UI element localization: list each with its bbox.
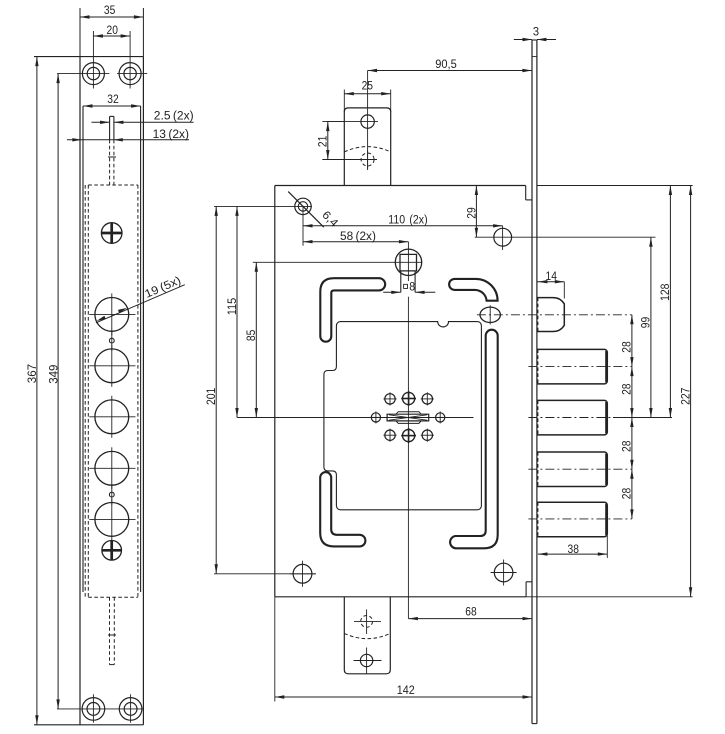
case inner rect (left view) — [83, 106, 141, 592]
top mounting tab — [344, 108, 390, 186]
dim 35 — [80, 5, 143, 19]
dim 99 — [641, 237, 653, 417]
svg-text:28: 28 — [622, 384, 634, 395]
dim 21 — [317, 122, 344, 160]
phillips screw bottom (left view) — [102, 541, 122, 561]
extension line bottom right — [526, 596, 693, 598]
svg-text:35: 35 — [104, 5, 115, 17]
spindle hub circle — [395, 249, 421, 275]
svg-text:115: 115 — [227, 298, 239, 315]
dim 201 — [206, 206, 316, 573]
inner case outline — [324, 322, 482, 510]
svg-text:201: 201 — [206, 388, 218, 405]
svg-text:85: 85 — [246, 330, 258, 341]
svg-text:2.5 (2x): 2.5 (2x) — [154, 110, 194, 122]
bore hole circle 5 (19mm) — [89, 498, 135, 540]
svg-text:28: 28 — [622, 341, 634, 352]
lock body outline — [275, 186, 526, 597]
bore hole circle 2 (19mm) — [89, 345, 135, 387]
bolt 3 side view — [528, 452, 632, 487]
bottom mounting tab — [344, 597, 390, 674]
svg-text:110 (2x): 110 (2x) — [388, 214, 427, 226]
dim 142 — [275, 597, 532, 702]
nut lever bar — [387, 412, 429, 424]
svg-text:28: 28 — [622, 488, 634, 499]
dim 58 (2x) — [303, 231, 408, 243]
body top notch at faceplate — [526, 186, 532, 200]
body center vertical line — [407, 242, 409, 619]
hook slot bottom-right (long) — [450, 330, 498, 549]
spindle slot hidden lines — [108, 140, 116, 185]
bolt 1 side view — [528, 349, 632, 384]
svg-text:13 (2x): 13 (2x) — [153, 129, 190, 141]
dim 32 — [83, 94, 141, 108]
dim 20 — [93, 25, 130, 38]
dim 13 (2x) — [67, 129, 189, 141]
tab hole top — [327, 115, 379, 128]
extension line top right — [537, 185, 693, 187]
label 19 (5x) leader — [96, 275, 185, 323]
dim 3 — [514, 27, 556, 42]
tab hole bottom (hidden) — [327, 150, 378, 168]
bottom tab dashed edge — [344, 633, 390, 638]
svg-text:367: 367 — [27, 364, 39, 383]
svg-text:99: 99 — [641, 317, 653, 328]
svg-text:14: 14 — [546, 271, 558, 283]
bore hole circle 1 (19mm) — [89, 293, 135, 335]
hook slot top-right — [449, 279, 498, 301]
screw hole bottom-right — [119, 698, 142, 721]
dim 90,5 — [368, 59, 532, 72]
mount hole top-right — [475, 226, 656, 250]
mount hole bottom-right — [491, 560, 517, 586]
dim 28 chain — [622, 315, 634, 519]
svg-text:25: 25 — [362, 80, 373, 92]
svg-text:38: 38 — [568, 544, 579, 556]
hook slot bottom-left — [320, 472, 365, 546]
bottom tab hole top (hidden) — [354, 610, 381, 635]
cylinder screw ellipse — [480, 305, 500, 324]
faceplate outline (left view) — [80, 57, 143, 725]
dim 14 — [537, 271, 564, 298]
body bottom notch at faceplate — [526, 582, 532, 597]
bolt 4 side view — [528, 502, 632, 537]
svg-text:20: 20 — [107, 25, 118, 37]
square-8 annotation — [404, 281, 416, 293]
svg-text:90,5: 90,5 — [435, 59, 457, 71]
dim 29 — [466, 186, 478, 238]
screw hole top-left — [82, 63, 104, 85]
tailpiece hidden slot — [108, 597, 116, 664]
small hole 2 — [109, 484, 114, 505]
dim 2.5 (2x) — [92, 110, 194, 124]
svg-text:21: 21 — [317, 136, 329, 147]
dim 110 (2x) — [303, 214, 503, 227]
svg-text:29: 29 — [466, 207, 478, 218]
bore hole circle 3 (19mm) — [89, 396, 135, 438]
faceplate top edge + 367 extension line — [34, 56, 143, 58]
latch head side view — [537, 298, 564, 332]
top screw centerlines — [57, 31, 147, 89]
svg-text:32: 32 — [107, 94, 118, 106]
svg-text:142: 142 — [397, 685, 415, 697]
mount hole bottom-left — [290, 561, 316, 587]
faceplate side view bar — [532, 40, 537, 724]
hook slot top-left — [320, 278, 385, 342]
dim 38 — [538, 536, 607, 558]
bottom screw centerlines — [57, 694, 143, 723]
screw hole top-right — [119, 63, 141, 85]
mount hole top-left with slash — [214, 192, 324, 246]
body horizontal center line — [237, 417, 474, 419]
svg-text:227: 227 — [680, 388, 692, 405]
dim 128 — [660, 186, 672, 418]
dim 68 — [408, 607, 532, 621]
dim 8 — [383, 291, 435, 294]
small hole 1 — [109, 330, 114, 351]
tab center line — [367, 71, 369, 171]
svg-text:58 (2x): 58 (2x) — [340, 231, 376, 243]
dashed rect hidden edges — [85, 185, 138, 597]
svg-text:8: 8 — [409, 281, 415, 293]
mechanism screws group — [370, 391, 446, 443]
dim 35 extension lines — [80, 8, 143, 57]
bore hole circle 4 (19mm) — [89, 447, 135, 489]
svg-text:128: 128 — [660, 284, 672, 301]
tab dashed edge line — [344, 147, 390, 152]
svg-text:349: 349 — [48, 365, 60, 384]
svg-text:68: 68 — [465, 607, 476, 619]
svg-text:28: 28 — [622, 441, 634, 452]
label 6,4 — [319, 209, 340, 230]
dim 227 — [680, 186, 692, 597]
spindle stem — [401, 271, 415, 292]
phillips screw top (left view) — [101, 223, 122, 244]
spindle square hole — [400, 254, 417, 271]
dim 25 — [344, 80, 390, 112]
spindle slot (left view) — [110, 116, 114, 139]
dim 115 — [227, 206, 239, 417]
faceplate bottom edge + 367 extension line — [34, 724, 143, 726]
bottom tab hole bottom — [354, 648, 382, 674]
dim 367 — [27, 57, 39, 725]
dim 349 — [48, 74, 60, 709]
bolt 2 side view — [528, 400, 672, 435]
screw hole bottom-left — [82, 698, 105, 721]
latch center line — [477, 314, 632, 316]
dim 85 — [246, 262, 422, 417]
svg-text:3: 3 — [533, 27, 539, 39]
